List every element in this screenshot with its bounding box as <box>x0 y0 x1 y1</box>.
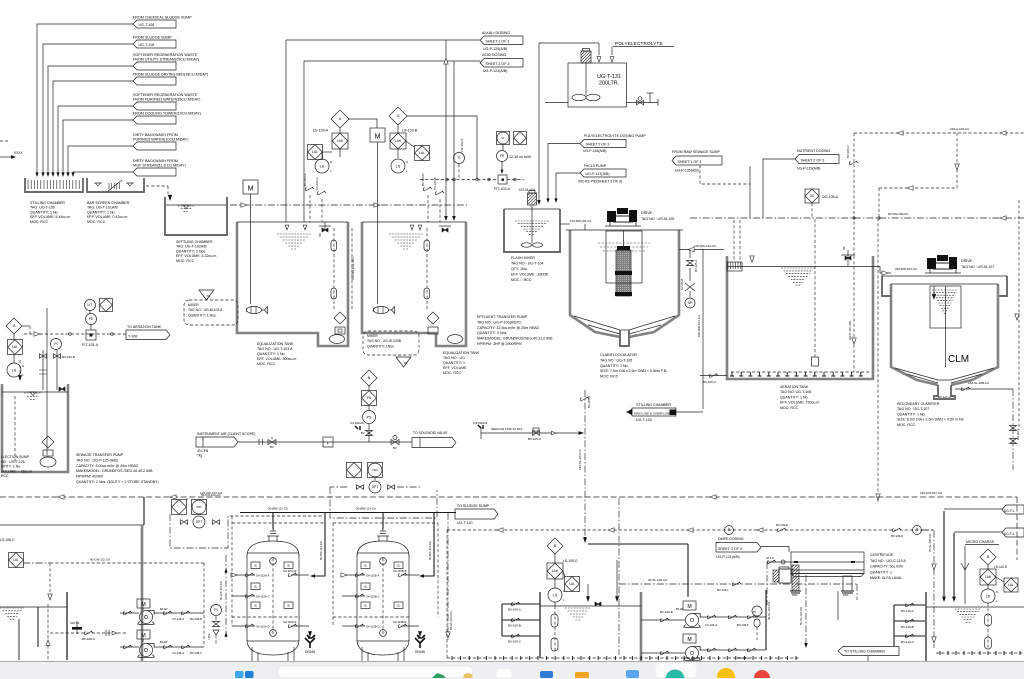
mixer motor M2 for eq tank B <box>370 128 385 142</box>
secondary clarifier feed well <box>930 286 961 328</box>
micro charge tank wall <box>925 592 927 661</box>
wire bar screen to settling chamber <box>146 185 168 187</box>
wire dash-dot x226 <box>225 555 227 640</box>
eq tank B water hatch <box>389 234 423 249</box>
instrument stack LS-103-B <box>389 107 407 125</box>
sludge tank bottom-left <box>0 524 144 526</box>
aeration tank UG-T-106 <box>727 256 873 379</box>
eq tank A water hatch <box>277 234 311 249</box>
wire dash-dot x585 <box>584 390 586 541</box>
taskbar start button <box>235 671 254 678</box>
wire dashed x878 down <box>877 218 879 502</box>
valves above eq tank B <box>427 195 429 222</box>
clariflocculator support column <box>620 330 629 346</box>
secondary clarifier UG-T-107 launder <box>882 276 891 296</box>
aeration water hatch <box>781 268 815 285</box>
wire fecl3 line <box>556 173 580 200</box>
wire dash-dot settling to tanks y205 <box>230 204 467 206</box>
filter vessel 115A shell <box>247 554 299 641</box>
micro charge inlet arrows <box>942 597 946 602</box>
taskbar red circle icon <box>754 670 770 679</box>
mixer A dashed label box <box>184 300 238 325</box>
wire alkali dosing line <box>286 39 480 41</box>
wire dosing pump line <box>548 144 580 201</box>
wire right edge dashed <box>1018 200 1020 430</box>
pump 2 valves <box>154 646 204 648</box>
taskbar icon light blue <box>626 670 639 678</box>
taskbar open app card <box>655 663 697 678</box>
wire leader <box>37 24 133 174</box>
centrifuge motor <box>779 569 791 583</box>
eq tank A top black valve <box>322 228 328 232</box>
secondary clarifier underflow valve <box>955 388 1013 390</box>
aeration top-right valve <box>845 256 851 260</box>
taskbar search pill <box>277 666 473 678</box>
wire instrument air line y443 <box>238 441 412 443</box>
eq tank B inlet arrows <box>410 225 414 230</box>
wire dashed to aeration banner <box>24 333 126 335</box>
pump B2 valves <box>700 649 766 651</box>
aeration diffuser row <box>730 372 863 376</box>
wire pump discharge header x204 <box>203 563 205 647</box>
taskbar icon orange <box>575 672 589 678</box>
wire aeration outlet to clarifier <box>873 267 891 274</box>
instrument stack LS-110-E <box>980 549 996 565</box>
pump set A pump 2 <box>123 645 132 649</box>
wire dashed 100-A-106-CA <box>854 132 1024 134</box>
wire dosing drop pipes into tank B <box>445 40 447 218</box>
instrument stack LS-103-A <box>331 110 349 128</box>
instrument FI cluster <box>497 132 510 145</box>
sludge tank water hatch <box>0 608 24 619</box>
clariflocculator drive motors <box>607 211 616 222</box>
wire dashed branch <box>879 133 957 188</box>
wire instrument air dashed y179 <box>420 179 498 181</box>
dash-dot box around DPS <box>170 514 228 548</box>
instrument PI near pumps <box>211 605 222 616</box>
valve SK2 and BV-108-A <box>72 627 82 630</box>
sludge sump tank walls <box>539 592 541 658</box>
wire 50-BW-112 line <box>240 512 456 514</box>
wire raw sewage feed <box>700 165 750 184</box>
wire main dashed header y497 <box>0 496 1017 498</box>
eq tank A sump pump <box>330 335 345 344</box>
valve BV-106-A <box>700 375 727 377</box>
centrifuge legs <box>792 565 799 591</box>
stilling chamber UG-T-100 <box>25 178 83 192</box>
aeration inlet weir <box>727 262 742 271</box>
wire right side dashdot down <box>1012 389 1014 470</box>
search pill icon green <box>432 673 446 678</box>
wire outlet 100-RW-103-CA right <box>679 249 724 251</box>
taskbar icon blue <box>540 671 553 678</box>
wire leader <box>73 172 133 174</box>
wire inlet 100-RW-102-CA <box>560 223 570 225</box>
valves above eq tank A <box>309 195 311 222</box>
banner right edge 1 <box>1002 505 1024 514</box>
wire BV-110 column pipe <box>893 605 895 646</box>
instrument PI-125 <box>51 339 62 350</box>
wire nutrient line <box>763 159 795 218</box>
bottom dashed diffuser row right <box>936 652 1024 654</box>
valve BV on air line <box>268 440 276 445</box>
bottom dashed diffuser row mid <box>447 657 800 659</box>
instrument stack B-PS <box>361 370 377 386</box>
aeration DO signal dash-dot <box>853 256 855 372</box>
wire dash-dot 50-SW-109-CA <box>690 217 1024 219</box>
eq tank A mixer UG-M-103A <box>247 306 262 313</box>
valve BV-106-C <box>849 161 858 165</box>
wire vessel2 riser <box>421 513 434 576</box>
collection sump internals <box>14 396 16 462</box>
wire leader <box>53 81 133 174</box>
eq tank B internals <box>426 228 428 310</box>
wire solids line <box>837 591 839 620</box>
wire inlet from left edge <box>0 156 13 158</box>
wire dashed x447 down <box>446 530 448 658</box>
wire 40-SL-100-CA <box>619 583 857 585</box>
micro charge water hatch <box>955 609 981 622</box>
wire dashed hookup left <box>230 515 322 517</box>
drain of vessel 1 <box>308 631 312 637</box>
wire dashed y530 long <box>447 529 934 531</box>
search pill icon yellow <box>463 673 473 679</box>
wire I2 to drop <box>407 116 477 179</box>
pump set B pump 2 <box>641 652 685 654</box>
centrifuge inlet valve <box>767 561 791 563</box>
instrument FE-125 <box>86 314 97 325</box>
drain of vessel 2 <box>418 631 422 637</box>
wire dashed hookup vessel2 <box>333 522 438 524</box>
valve BV-109-D <box>892 528 901 532</box>
collection sump tank UG-T-125 <box>2 384 68 472</box>
wire polyelectrolyte feed <box>611 47 613 56</box>
instrument stack I3 <box>6 318 22 334</box>
TA triangle A <box>199 290 214 300</box>
vessel 115A internals <box>272 558 274 636</box>
instrument R circle 1 <box>725 526 734 535</box>
instrument FIT-125-A <box>86 330 96 340</box>
centrifuge feed pipe <box>761 547 789 553</box>
valves BV-125 <box>42 350 44 390</box>
taskbar yellow circle icon <box>717 668 735 679</box>
wire dash-dot x448 <box>447 513 449 640</box>
wire vessel1 riser <box>312 513 325 576</box>
tank top black valve <box>595 602 601 606</box>
vessel 115B top nozzle <box>377 527 389 542</box>
wire clari overflow to stilling banner <box>702 250 704 410</box>
equalization tank B UG-T-103B <box>362 222 466 346</box>
wire leader <box>48 66 133 174</box>
wire leader <box>63 120 133 174</box>
equalization tank A UG-T-103A <box>237 222 348 346</box>
valve and vent at UG-T-131 outlet <box>627 102 659 104</box>
valves BV-109-A/B/C <box>502 603 540 605</box>
instrument FIT-103-A <box>498 175 507 184</box>
secondary clarifier cone internals <box>895 368 994 380</box>
wire leader <box>58 106 133 174</box>
wire pump B discharge <box>765 590 767 650</box>
wire vertical x144 <box>143 497 145 525</box>
clariflocculator central shaft hatched <box>616 250 631 296</box>
wire centrifuge left dashdot <box>766 562 768 605</box>
tank UG-T-131 polyelectrolyte <box>568 63 627 107</box>
settling chamber UG-T-102A/B <box>165 197 227 235</box>
sludge sump inlet arrows <box>586 596 590 602</box>
secondary clarifier drive <box>927 258 936 269</box>
wire dash to LAL <box>23 562 50 564</box>
eq tank A internals <box>333 228 335 310</box>
secondary clarifier feed hatch <box>932 290 958 313</box>
taskbar teal circle icon <box>666 670 685 679</box>
sludge sump water hatch <box>565 608 591 620</box>
secondary clarifier center shaft <box>945 286 947 367</box>
flash mixer tank UG-T-104 <box>504 209 560 252</box>
eq tank B mixer UG-M-103B <box>374 306 389 313</box>
pump B1 valves <box>700 616 766 618</box>
eq tank A inlet arrows <box>285 225 289 230</box>
clariflocculator cone internals <box>574 316 675 330</box>
instrument stack LS-109-D <box>547 538 563 554</box>
pump 1 valves <box>154 612 204 614</box>
clariflocculator UG-T-105 shell <box>570 230 620 337</box>
aeration center dashed probe <box>814 219 816 357</box>
wire sump inlet arrow <box>18 375 22 381</box>
instrument DPS cluster bottom-left <box>172 500 187 515</box>
eq tank B top black valve <box>442 228 448 232</box>
vessel 115A valve hookups <box>232 574 255 576</box>
valve BV-105-A stack <box>689 250 691 259</box>
wire dash-dot x619-620 <box>618 498 620 655</box>
TA triangle B <box>396 357 411 367</box>
wire R to corner <box>922 530 934 648</box>
secondary clarifier outlet pedestal <box>934 385 955 399</box>
mixer motor M1 for eq tank A <box>243 180 258 194</box>
filter vessel 115B shell <box>357 554 409 641</box>
instrument TI <box>454 153 465 164</box>
wire y544 pump feed <box>588 543 688 545</box>
secondary clarifier inlet arrow <box>932 294 936 300</box>
wire feed pipes right <box>943 511 945 599</box>
dash-dot box mid <box>330 487 437 518</box>
centrifuge UG-C-115A body <box>791 552 864 574</box>
instrument LAL bottom-left <box>9 553 24 568</box>
instrument DO-106-A <box>805 189 819 203</box>
vessel 115A top nozzle <box>267 527 279 542</box>
instrument cluster LIT <box>85 300 96 311</box>
instrument FE <box>497 151 508 162</box>
sludge sump internals <box>554 606 556 652</box>
dashed box vessel 1 <box>232 522 325 524</box>
vessel 115B internals <box>382 558 384 636</box>
wire acid dosing line <box>304 60 480 62</box>
micro charge level probes <box>987 603 989 650</box>
wire leader <box>43 44 133 174</box>
collection sump top valve <box>59 387 65 391</box>
wire leader <box>68 146 133 174</box>
valve near solenoid <box>391 440 399 445</box>
vessel 115A legs <box>252 647 294 661</box>
taskbar <box>0 661 1024 679</box>
wire centrate dash-dot down <box>805 575 807 645</box>
wire I1 to M2 <box>349 119 377 128</box>
clariflocculator water dashes <box>598 243 650 251</box>
vessel 115B valve hookups <box>342 574 365 576</box>
aeration inlet drops <box>733 220 735 260</box>
clariflocculator feed well <box>606 231 642 283</box>
valves BV-110-A/B/C <box>894 604 926 606</box>
F box <box>323 437 333 447</box>
eq tank B sump pump <box>448 335 463 344</box>
instrument R circle 2 <box>913 526 922 535</box>
wire service line <box>481 432 582 434</box>
bar screen chamber UG-T-101A/B <box>87 178 144 192</box>
mixer B dashed label box <box>363 331 419 355</box>
pump set B pump 1 <box>641 619 685 621</box>
secondary clarifier shell <box>891 284 938 385</box>
pump set A (filter feed) pump 1 <box>123 611 132 615</box>
banner right edge 2 <box>1002 528 1024 537</box>
wire dashed x48 lower <box>47 604 49 660</box>
wire micro charge drop <box>964 546 966 604</box>
mixer motor on UG-T-131 <box>581 51 591 63</box>
valve BV-109 on y530 <box>777 528 786 532</box>
instrument DPS cluster mid <box>347 463 362 478</box>
taskbar icon white <box>496 669 512 678</box>
instrument PI pumps B <box>752 606 762 616</box>
vessel 115B legs <box>362 647 404 661</box>
